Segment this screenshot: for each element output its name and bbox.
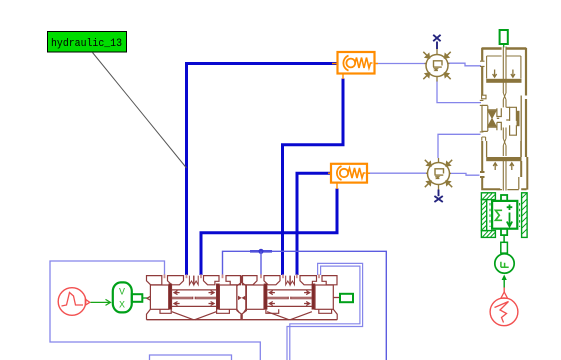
bottom stub	[501, 229, 507, 235]
stem middle	[503, 100, 506, 139]
wire W2 : check valve V1 bottom port to spool valve gap G6	[283, 79, 344, 276]
wire W4 : check valve V2 left port to spool valve gap G7	[297, 173, 330, 275]
spool rod 1	[172, 297, 217, 300]
pocket P5	[243, 276, 258, 285]
signal source S2 (pulse input)	[58, 288, 90, 316]
piston head	[487, 79, 521, 82]
output rod stub right	[333, 297, 340, 299]
top stub	[501, 195, 507, 201]
inner shelf and bore walls	[487, 56, 521, 79]
spool position sensor box (green)	[340, 294, 353, 302]
down arrow right	[511, 70, 515, 78]
land bar D	[312, 284, 315, 310]
piston block A	[150, 285, 168, 309]
output port triangle of S2	[85, 299, 90, 305]
check valve V2	[328, 164, 370, 189]
plus sign	[507, 205, 513, 211]
base rail	[147, 319, 338, 321]
pressure node N1	[423, 49, 450, 82]
left outer wall with port P1 gap	[481, 48, 483, 95]
components layer	[48, 30, 528, 326]
wire W13 : check valve V2 right to node N2	[368, 172, 428, 174]
spring seat W2 (double pennant)	[286, 276, 295, 285]
hanging cup D	[319, 309, 332, 313]
servo valve U1 : lower piston section	[480, 141, 527, 191]
mass sliding interface dashes	[490, 203, 520, 227]
node N1 glyph	[433, 61, 442, 71]
servo valve U1 : upper pilot piston section	[480, 47, 526, 100]
hanging cup C	[266, 309, 279, 313]
left port cap boxes	[482, 95, 486, 99]
junction J1 on wire W5	[250, 250, 272, 253]
mass body	[492, 201, 517, 229]
flow arrow B1 left	[269, 291, 275, 295]
flow arrow A3 right	[209, 291, 215, 295]
top wall	[482, 47, 527, 50]
svg-text:X: X	[119, 301, 125, 312]
signal arrow from S1 to F1	[501, 275, 508, 299]
displacement sensor port (green box on top of servo valve)	[500, 30, 508, 48]
solid land bar	[517, 111, 519, 126]
plug X2 below node N2	[434, 190, 442, 203]
wire W3 : check valve V2 bottom port to spool valve gap G3	[201, 189, 337, 276]
right outer wall	[525, 99, 527, 157]
wire W12 : node N1 bottom to servo valve port P2	[437, 81, 481, 103]
stem pinch 2	[503, 139, 506, 146]
channel 2 outline	[267, 290, 312, 307]
link bowtie	[238, 296, 241, 299]
spool stem pinch 1	[503, 93, 506, 100]
wires layer	[50, 63, 481, 360]
right walls and foot	[521, 157, 527, 190]
pocket P2	[168, 276, 184, 285]
land bar A	[169, 284, 172, 310]
land bar B	[216, 284, 219, 310]
wire W10 : check valve V1 right to node N1	[375, 63, 427, 65]
signal source S1 (random signal)	[490, 298, 518, 326]
left outer wall with port P4 gap and foot	[480, 141, 500, 189]
funnel under channel 1	[172, 312, 217, 320]
pocket P8	[322, 276, 337, 285]
wire W5 : tank line from gap G4 to bottom edge	[223, 251, 387, 360]
signal wire arrow S2 to VX converter	[91, 299, 111, 305]
wire W6 : junction J1 drop to spool valve gap G5	[260, 251, 262, 274]
wire W1 : check valve V1 left port to spool valve gap G2	[187, 64, 338, 276]
node N1 inward arrows	[423, 52, 450, 79]
wire W11 : node N1 right to servo valve port P1	[447, 63, 481, 66]
funnel under channel 2	[267, 312, 312, 320]
foot under block A	[147, 309, 151, 319]
piston block D	[315, 285, 333, 309]
VX output stub box	[132, 294, 143, 302]
pocket P6	[264, 276, 280, 285]
spindle	[503, 47, 506, 94]
flow arrow A4 right	[209, 302, 215, 306]
spool rod 2	[267, 297, 312, 300]
wire W7 : supply loop from gap G1 around left to bottom edge	[50, 261, 260, 360]
pocket P3	[204, 276, 220, 285]
bore walls above piston	[487, 141, 521, 157]
bottom closing plates	[496, 189, 518, 191]
right endstop block hatched	[522, 193, 528, 238]
left endstop C-block hatched	[481, 193, 495, 238]
hexagon link H1	[237, 282, 247, 314]
right inner wall	[520, 96, 522, 158]
right outer wall	[525, 48, 527, 96]
pocket P4	[226, 276, 241, 285]
land bar C	[264, 284, 267, 310]
svg-text:V: V	[119, 288, 125, 299]
hanging cup A	[160, 309, 171, 313]
piston head	[487, 157, 521, 160]
flow arrow B2 left	[269, 302, 275, 306]
converter VX (signal to displacement)	[113, 282, 148, 312]
down arrow	[507, 213, 512, 227]
up arrow right	[510, 163, 514, 170]
stem lower	[503, 146, 506, 191]
flow arrow A2 left	[174, 302, 180, 306]
foot under block D	[333, 309, 337, 319]
hanging cup B	[217, 309, 230, 313]
force source connector stub	[501, 235, 508, 253]
flow arrow B3 right	[304, 291, 310, 295]
pocket P1	[147, 276, 162, 285]
feet under blocks B C	[237, 309, 246, 313]
mass letter M (rotated)	[496, 210, 503, 220]
check valve V1	[332, 52, 378, 79]
wire W15 : node N2 right to servo valve port P4	[449, 173, 480, 175]
port stubs (pink) at pocket gaps	[165, 274, 320, 278]
label hydraulic_13	[48, 32, 127, 53]
wire W14 : node N2 top to servo valve port P3	[438, 134, 481, 158]
wire W9 : double line from gap G8 to bottom edge (outer)	[287, 263, 363, 360]
spool valve assembly SV1	[147, 274, 341, 319]
up arrow left	[493, 163, 497, 170]
node N2 inward arrows	[425, 160, 452, 187]
flow arrow A1 left	[174, 291, 180, 295]
flow arrow B4 right	[304, 302, 310, 306]
node N2 glyph	[435, 169, 444, 179]
pocket P7	[300, 276, 317, 285]
leader line from label to wire W1	[93, 53, 187, 169]
force source F1	[495, 254, 514, 273]
metering meander left	[497, 108, 502, 130]
svg-text:hydraulic_13: hydraulic_13	[51, 38, 122, 50]
rod link to spool	[142, 297, 148, 299]
left chamber walls between ports P2 P3	[482, 105, 488, 131]
input notch arrow on left piston	[147, 296, 151, 300]
butterfly orifice	[487, 110, 497, 127]
piston block C	[246, 285, 264, 309]
spring seat W1 (double pennant)	[189, 276, 198, 285]
servo valve U1 : middle metering section	[480, 95, 526, 157]
piston block B	[219, 285, 237, 309]
metering meander right loops	[510, 107, 517, 135]
plug X1 above node N1	[433, 35, 440, 49]
mass with endstops M1	[481, 193, 527, 238]
channel 1 outline	[172, 290, 217, 307]
pressure node N2	[425, 158, 452, 190]
down arrow left	[493, 70, 497, 78]
wire W8 : bottom stub loop	[150, 355, 232, 360]
wire W9b : double line inner	[290, 266, 360, 360]
